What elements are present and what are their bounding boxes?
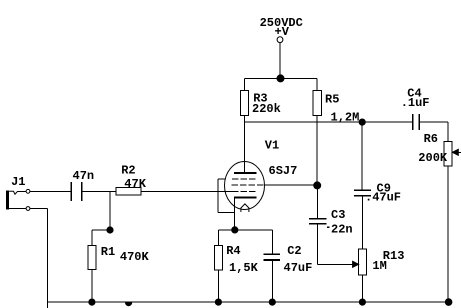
junction ground bump xyxy=(126,303,132,306)
svg-text:R5: R5 xyxy=(325,93,339,107)
supply terminal circle xyxy=(277,37,283,43)
arrow R13 wiper xyxy=(353,261,359,267)
wire R3 top lead xyxy=(244,78,246,90)
wire R1 horizontal xyxy=(92,229,110,231)
wire C9 top lead xyxy=(361,122,363,189)
svg-text:R1: R1 xyxy=(101,245,115,259)
wire R6 bottom lead xyxy=(447,166,449,302)
wire R1 bottom lead xyxy=(91,270,93,303)
wire screen to C3 xyxy=(316,185,318,218)
junction cathode node xyxy=(232,227,238,233)
J1 sleeve contact circle xyxy=(26,207,30,211)
svg-text:47uF: 47uF xyxy=(284,261,313,275)
J1 tip contact circle xyxy=(26,189,30,193)
svg-text:47n: 47n xyxy=(73,169,95,183)
capacitor C3 xyxy=(309,218,326,220)
junction R4 ground xyxy=(215,299,221,305)
svg-text:47K: 47K xyxy=(124,177,146,191)
tube heater xyxy=(241,204,249,212)
wire to C2 xyxy=(271,230,273,254)
wire suppressor stub xyxy=(218,178,226,180)
wire C9 to R13 xyxy=(361,196,363,249)
junction screen node xyxy=(314,182,321,189)
svg-text:.1uF: .1uF xyxy=(401,96,430,110)
wire screen to node xyxy=(264,184,317,186)
wire C47n to R2 xyxy=(82,190,116,192)
wire R1 tap down xyxy=(109,191,111,230)
tube plate bar xyxy=(234,172,257,174)
capacitor C9 xyxy=(354,189,371,191)
label C3 tick xyxy=(327,226,330,228)
svg-text:C3: C3 xyxy=(331,208,345,222)
wire ground rail xyxy=(48,301,449,303)
junction +V node xyxy=(277,75,284,82)
potentiometer R6 xyxy=(444,141,452,165)
junction R1 ground xyxy=(89,299,95,305)
svg-text:200K: 200K xyxy=(418,151,448,165)
junction R1 corner xyxy=(107,227,113,233)
connector J1 xyxy=(6,191,9,210)
wire R5 top lead xyxy=(316,78,318,90)
arrow R6 wiper xyxy=(457,151,461,153)
wire C2 bottom lead xyxy=(271,260,273,302)
svg-text:1,5K: 1,5K xyxy=(229,261,259,275)
wire R2 to grid xyxy=(141,190,232,192)
wire +V down xyxy=(279,43,281,79)
svg-text:.47uF: .47uF xyxy=(365,191,401,205)
wire +V bus xyxy=(245,77,318,79)
tube cathode bar xyxy=(234,197,257,199)
resistor R2 xyxy=(116,188,141,195)
tube suppressor grid (dashed) xyxy=(232,178,255,180)
wire suppressor-cathode link vertical xyxy=(217,179,219,212)
wire C3 to wiper xyxy=(316,224,318,264)
svg-text:470K: 470K xyxy=(120,250,150,264)
wire R5 to screen grid xyxy=(316,116,318,186)
wire plate line xyxy=(245,121,413,123)
wire J1 sleeve to ground xyxy=(30,208,48,210)
wire J1 tip stub xyxy=(18,190,27,192)
resistor R1 xyxy=(88,245,96,269)
J1 tip switch contact xyxy=(9,191,18,194)
svg-text:+V: +V xyxy=(275,25,290,39)
capacitor 47n xyxy=(70,182,72,201)
svg-text:J1: J1 xyxy=(11,175,25,189)
svg-text:V1: V1 xyxy=(265,139,279,153)
wire cathode stub xyxy=(218,211,235,213)
junction C2 ground xyxy=(269,299,275,305)
wire R4 bottom lead xyxy=(217,270,219,302)
svg-text:6SJ7: 6SJ7 xyxy=(269,164,298,178)
junction R13 ground xyxy=(359,299,365,305)
wire R13 bottom lead xyxy=(361,275,363,302)
svg-text:R4: R4 xyxy=(226,244,240,258)
wire to R4 xyxy=(217,230,219,246)
svg-text:C2: C2 xyxy=(287,244,301,258)
tube V1 envelope xyxy=(225,162,265,210)
wire R3 bottom lead xyxy=(244,116,246,123)
wire R1 top lead xyxy=(91,230,93,245)
wire plate lead down xyxy=(244,122,246,173)
wire C4 to R6 xyxy=(419,121,448,123)
junction plate-C9 node xyxy=(359,119,365,125)
svg-text:1M: 1M xyxy=(372,259,386,273)
resistor R3 xyxy=(240,91,248,116)
tube control grid (dashed) xyxy=(232,190,255,192)
wire cathode horizontal xyxy=(218,229,272,231)
svg-text:22n: 22n xyxy=(331,222,353,236)
wire J1 sleeve stub xyxy=(9,208,26,210)
resistor R4 xyxy=(214,246,222,271)
resistor R5 xyxy=(313,91,321,116)
junction R6 ground xyxy=(445,299,452,306)
tube screen grid (dashed) xyxy=(232,184,264,186)
capacitor C4 xyxy=(412,114,414,130)
wire J1 ground drop xyxy=(47,209,49,308)
potentiometer R13 xyxy=(359,249,367,275)
wire cathode lead down xyxy=(234,198,236,230)
capacitor C2 xyxy=(264,253,280,255)
svg-text:R2: R2 xyxy=(121,164,135,178)
wire J1 tip to C47n xyxy=(30,190,71,192)
svg-text:R6: R6 xyxy=(424,132,438,146)
svg-text:220k: 220k xyxy=(252,102,281,116)
